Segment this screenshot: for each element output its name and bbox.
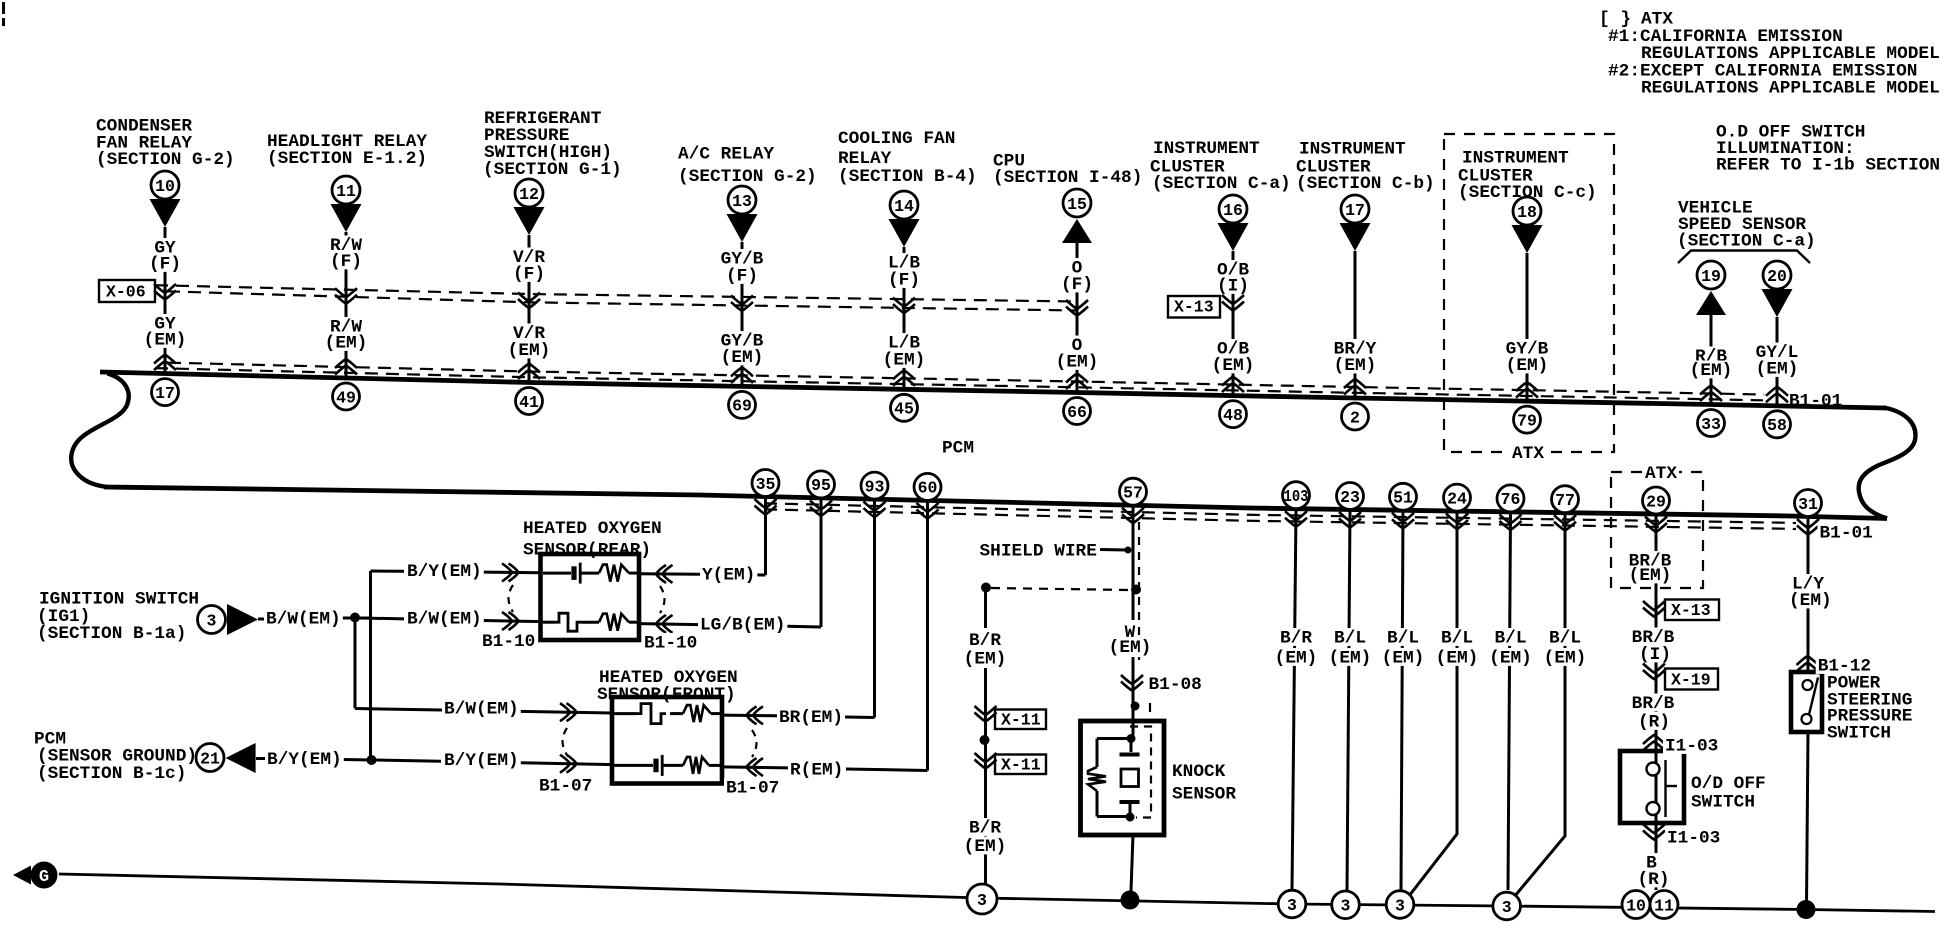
svg-text:B/Y(EM): B/Y(EM) [407, 562, 482, 582]
svg-text:41: 41 [519, 393, 539, 412]
svg-text:(SECTION G-2): (SECTION G-2) [96, 150, 235, 170]
svg-text:(EM): (EM) [1756, 359, 1799, 379]
svg-text:48: 48 [1223, 406, 1243, 425]
svg-text:KNOCK: KNOCK [1172, 762, 1226, 782]
svg-text:B/L: B/L [1334, 628, 1366, 648]
svg-text:SENSOR(REAR): SENSOR(REAR) [523, 540, 651, 560]
svg-text:(SECTION C-a): (SECTION C-a) [1152, 174, 1291, 194]
svg-text:B/L: B/L [1494, 628, 1526, 648]
svg-text:G: G [39, 868, 49, 887]
svg-text:51: 51 [1393, 489, 1413, 508]
svg-text:(F): (F) [330, 252, 362, 272]
svg-text:(EM): (EM) [1275, 648, 1318, 668]
svg-text:76: 76 [1501, 490, 1521, 509]
svg-text:(EM): (EM) [1789, 591, 1832, 611]
svg-text:X-11: X-11 [1001, 711, 1041, 730]
svg-text:B1-07: B1-07 [539, 776, 592, 796]
svg-text:B/L: B/L [1549, 628, 1581, 648]
svg-text:A/C RELAY: A/C RELAY [678, 144, 774, 164]
svg-text:(EM): (EM) [508, 341, 551, 361]
svg-text:(EM): (EM) [1629, 566, 1672, 586]
svg-text:(SECTION G-2): (SECTION G-2) [678, 167, 817, 187]
svg-text:ATX: ATX [1645, 464, 1677, 484]
svg-text:17: 17 [1345, 201, 1365, 220]
svg-text:X-11: X-11 [1001, 756, 1041, 775]
svg-text:3: 3 [1341, 897, 1351, 916]
svg-text:(EM): (EM) [964, 837, 1007, 857]
svg-text:35: 35 [756, 475, 776, 494]
svg-text:X-06: X-06 [106, 283, 146, 302]
svg-text:(SECTION B-4): (SECTION B-4) [838, 167, 977, 187]
svg-text:17: 17 [155, 384, 175, 403]
svg-text:B1-10: B1-10 [644, 633, 697, 653]
svg-text:B/Y(EM): B/Y(EM) [267, 750, 342, 770]
svg-text:3: 3 [1502, 898, 1512, 917]
svg-text:(EM): (EM) [1436, 648, 1479, 668]
svg-text:(SECTION C-a): (SECTION C-a) [1677, 231, 1816, 251]
svg-text:14: 14 [894, 197, 914, 216]
svg-text:X-13: X-13 [1671, 601, 1711, 620]
svg-text:2: 2 [1350, 408, 1360, 427]
svg-text:B1-08: B1-08 [1149, 675, 1202, 695]
svg-text:3: 3 [207, 611, 217, 630]
svg-text:ATX: ATX [1512, 444, 1544, 464]
svg-text:BR(EM): BR(EM) [779, 708, 843, 728]
svg-text:(F): (F) [888, 270, 920, 290]
svg-text:SWITCH: SWITCH [1691, 792, 1755, 812]
svg-text:(EM): (EM) [883, 350, 926, 370]
svg-text:33: 33 [1701, 415, 1721, 434]
svg-text:B1-01: B1-01 [1820, 523, 1873, 543]
svg-text:(SECTION G-1): (SECTION G-1) [483, 160, 622, 180]
svg-text:R(EM): R(EM) [790, 760, 843, 780]
svg-text:(EM): (EM) [1544, 648, 1587, 668]
svg-text:B/R: B/R [969, 631, 1001, 651]
svg-text:93: 93 [865, 477, 885, 496]
svg-text:58: 58 [1767, 416, 1787, 435]
svg-text:LG/B(EM): LG/B(EM) [700, 615, 785, 635]
svg-text:(I): (I) [1217, 276, 1249, 296]
svg-text:19: 19 [1701, 267, 1721, 286]
svg-text:COOLING FAN: COOLING FAN [838, 129, 955, 149]
svg-text:(EM): (EM) [1109, 638, 1152, 658]
svg-text:(SECTION B-1c): (SECTION B-1c) [37, 764, 186, 784]
svg-text:(EM): (EM) [1382, 648, 1425, 668]
svg-text:(R): (R) [1638, 712, 1670, 732]
svg-text:16: 16 [1223, 201, 1243, 220]
svg-text:45: 45 [894, 400, 914, 419]
svg-text:24: 24 [1447, 489, 1467, 508]
svg-text:(SECTION I-48): (SECTION I-48) [993, 168, 1142, 188]
svg-text:12: 12 [519, 185, 539, 204]
svg-text:(EM): (EM) [1489, 648, 1532, 668]
svg-text:(F): (F) [726, 266, 758, 286]
svg-text:(EM): (EM) [325, 333, 368, 353]
svg-text:57: 57 [1123, 484, 1143, 503]
svg-text:INSTRUMENT: INSTRUMENT [1299, 139, 1406, 159]
svg-text:INSTRUMENT: INSTRUMENT [1153, 139, 1260, 159]
svg-text:(EM): (EM) [1334, 356, 1377, 376]
svg-text:3: 3 [1287, 896, 1297, 915]
svg-text:(EM): (EM) [1212, 356, 1255, 376]
svg-text:BR/B: BR/B [1632, 694, 1675, 714]
svg-text:B1-01: B1-01 [1789, 391, 1842, 411]
svg-text:O/D OFF: O/D OFF [1691, 774, 1766, 794]
svg-text:(EM): (EM) [1506, 356, 1549, 376]
svg-text:X-13: X-13 [1174, 298, 1214, 317]
svg-text:(EM): (EM) [1329, 648, 1372, 668]
svg-text:20: 20 [1767, 267, 1787, 286]
svg-text:29: 29 [1646, 492, 1666, 511]
svg-text:(EM): (EM) [1056, 352, 1099, 372]
svg-text:66: 66 [1067, 403, 1087, 422]
svg-text:11: 11 [1654, 896, 1674, 915]
svg-text:(SECTION C-b): (SECTION C-b) [1296, 174, 1435, 194]
svg-text:(EM): (EM) [144, 330, 187, 350]
svg-text:X-19: X-19 [1671, 671, 1711, 690]
svg-text:15: 15 [1067, 195, 1087, 214]
svg-text:B/R: B/R [1280, 628, 1312, 648]
svg-text:SENSOR(FRONT): SENSOR(FRONT) [597, 685, 736, 705]
svg-text:60: 60 [918, 479, 938, 498]
svg-text:SWITCH: SWITCH [1827, 723, 1891, 743]
svg-text:18: 18 [1517, 203, 1537, 222]
svg-text:23: 23 [1340, 488, 1360, 507]
svg-text:B1-10: B1-10 [482, 632, 535, 652]
svg-text:31: 31 [1798, 495, 1818, 514]
svg-text:B/W(EM): B/W(EM) [266, 609, 341, 629]
svg-text:(F): (F) [1061, 275, 1093, 295]
svg-text:SHIELD WIRE: SHIELD WIRE [980, 541, 1097, 561]
svg-text:HEATED OXYGEN: HEATED OXYGEN [523, 519, 662, 539]
svg-text:(F): (F) [513, 264, 545, 284]
svg-text:REGULATIONS APPLICABLE MODEL: REGULATIONS APPLICABLE MODEL [1641, 78, 1940, 98]
svg-text:11: 11 [336, 182, 356, 201]
svg-text:(EM): (EM) [721, 348, 764, 368]
svg-text:I1-03: I1-03 [1667, 828, 1720, 848]
svg-text:B/R: B/R [969, 818, 1001, 838]
svg-text:10: 10 [155, 177, 175, 196]
svg-text:(I): (I) [1639, 645, 1671, 665]
svg-text:69: 69 [732, 397, 752, 416]
svg-text:B/W(EM): B/W(EM) [444, 699, 519, 719]
svg-text:B1-07: B1-07 [726, 778, 779, 798]
svg-text:3: 3 [1395, 896, 1405, 915]
svg-text:B/W(EM): B/W(EM) [407, 609, 482, 629]
svg-text:77: 77 [1555, 491, 1575, 510]
svg-text:SENSOR: SENSOR [1172, 784, 1236, 804]
svg-text:(R): (R) [1637, 870, 1669, 890]
svg-text:10: 10 [1626, 896, 1646, 915]
svg-text:(SECTION E-1.2): (SECTION E-1.2) [267, 149, 427, 169]
svg-text:I1-03: I1-03 [1665, 736, 1718, 756]
svg-text:103: 103 [1284, 487, 1309, 506]
svg-text:Y(EM): Y(EM) [702, 565, 755, 585]
svg-text:B/L: B/L [1441, 628, 1473, 648]
svg-text:(SECTION C-c): (SECTION C-c) [1458, 183, 1597, 203]
svg-text:REFER TO I-1b SECTION: REFER TO I-1b SECTION [1716, 155, 1940, 175]
svg-text:INSTRUMENT: INSTRUMENT [1462, 148, 1569, 168]
svg-text:(EM): (EM) [1690, 361, 1733, 381]
svg-text:B/L: B/L [1387, 628, 1419, 648]
svg-text:13: 13 [732, 192, 752, 211]
svg-text:79: 79 [1517, 411, 1537, 430]
svg-text:21: 21 [200, 749, 220, 768]
svg-text:(EM): (EM) [964, 649, 1007, 669]
svg-text:95: 95 [811, 476, 831, 495]
svg-text:49: 49 [336, 388, 356, 407]
svg-text:(SECTION B-1a): (SECTION B-1a) [37, 624, 186, 644]
svg-text:PCM: PCM [942, 438, 974, 458]
svg-text:B/Y(EM): B/Y(EM) [444, 751, 519, 771]
svg-text:3: 3 [977, 891, 987, 910]
svg-text:(F): (F) [149, 254, 181, 274]
svg-text:RELAY: RELAY [838, 149, 892, 169]
